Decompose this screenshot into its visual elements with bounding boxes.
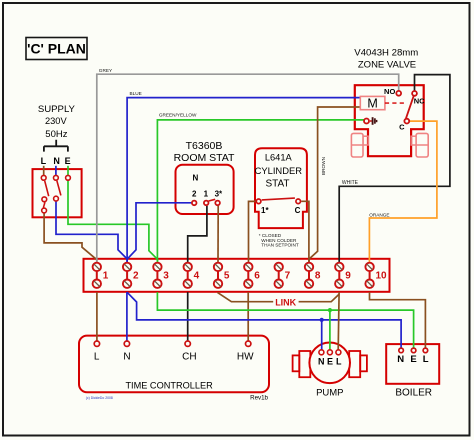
wire green terminal 3 to pump and boiler E bbox=[157, 292, 413, 350]
wire grey terminal 1 to valve NO bbox=[97, 68, 399, 264]
wire brown cylinder stat 1 to terminal 6 bbox=[249, 201, 256, 263]
wire white valve NC to terminal 9 bbox=[339, 75, 450, 264]
wire orange valve C to terminal 10 bbox=[369, 121, 437, 263]
cylinder stat box L641A bbox=[255, 148, 307, 228]
zone valve terminal NO bbox=[384, 87, 401, 96]
strip terminal 5 bbox=[214, 263, 230, 288]
label SUPPLY 230V 50Hz bbox=[38, 104, 76, 140]
room stat pin labels N 2 1 3* bbox=[192, 174, 223, 199]
room stat terminal 2 bbox=[192, 201, 197, 206]
svg-text:NO: NO bbox=[384, 87, 395, 96]
wire black terminal 4 to controller CH bbox=[187, 292, 189, 341]
wire brown supply L to terminal 1 bbox=[44, 213, 97, 263]
terminal strip TS1 bbox=[84, 259, 390, 292]
cylinder stat footnote bbox=[259, 233, 299, 247]
boiler terminal N bbox=[397, 348, 404, 365]
zone valve mechanical link dashed bbox=[385, 102, 406, 104]
strip terminal 9 bbox=[335, 263, 351, 288]
svg-text:N: N bbox=[53, 156, 60, 166]
svg-text:ZONE VALVE: ZONE VALVE bbox=[358, 59, 416, 70]
strip terminal 3 bbox=[153, 263, 169, 288]
svg-text:N: N bbox=[123, 352, 130, 363]
time controller terminal N bbox=[123, 341, 130, 363]
svg-text:GREEN/YELLOW: GREEN/YELLOW bbox=[159, 112, 197, 117]
pump terminal E bbox=[327, 350, 333, 367]
svg-text:'C' PLAN: 'C' PLAN bbox=[27, 41, 86, 57]
room stat box T6360B bbox=[174, 140, 235, 214]
zone valve terminal NC bbox=[412, 91, 425, 106]
svg-text:ROOM STAT: ROOM STAT bbox=[174, 152, 235, 164]
boiler box bbox=[386, 344, 439, 398]
zone valve left union bbox=[351, 133, 368, 157]
svg-text:10: 10 bbox=[376, 271, 388, 282]
supply bracket symbol bbox=[44, 140, 68, 152]
svg-text:THAN SETPOINT: THAN SETPOINT bbox=[261, 242, 299, 247]
svg-text:4: 4 bbox=[194, 271, 200, 282]
svg-text:2: 2 bbox=[133, 271, 139, 282]
svg-text:PUMP: PUMP bbox=[316, 387, 343, 398]
title 'C' PLAN bbox=[26, 38, 87, 60]
svg-text:HW: HW bbox=[237, 352, 254, 363]
wire blue supply N to terminal 2 bbox=[56, 202, 127, 264]
wire brown terminal 6 to controller HW bbox=[247, 292, 249, 341]
svg-text:BOILER: BOILER bbox=[395, 387, 432, 398]
wire brown room stat 3 to terminal 5 bbox=[217, 206, 219, 264]
svg-text:V4043H 28mm: V4043H 28mm bbox=[354, 48, 418, 59]
svg-text:1: 1 bbox=[103, 271, 109, 282]
svg-text:CYLINDER: CYLINDER bbox=[255, 165, 303, 176]
wire brown link terminal 5 to terminal 9 bbox=[218, 292, 339, 307]
svg-text:6: 6 bbox=[254, 271, 260, 282]
wire brown terminal 1 to controller L bbox=[96, 292, 98, 341]
wire brown cylinder stat C to terminal 8 bbox=[301, 201, 309, 263]
svg-text:BROWN: BROWN bbox=[321, 157, 326, 175]
svg-text:L: L bbox=[94, 352, 100, 363]
strip terminal 4 bbox=[184, 263, 200, 288]
svg-text:M: M bbox=[367, 96, 377, 110]
cylinder stat pin labels 1* C bbox=[261, 206, 301, 215]
pump body bbox=[293, 343, 367, 399]
svg-text:2: 2 bbox=[192, 190, 197, 199]
supply switch blade L bbox=[45, 181, 49, 196]
svg-text:E: E bbox=[327, 356, 333, 366]
svg-text:5: 5 bbox=[224, 271, 230, 282]
time controller box bbox=[79, 336, 269, 393]
svg-text:3*: 3* bbox=[215, 190, 223, 199]
room stat switch blade bbox=[209, 199, 216, 201]
supply terminal L top bbox=[41, 175, 46, 180]
zone valve body bbox=[355, 85, 424, 156]
svg-text:TIME CONTROLLER: TIME CONTROLLER bbox=[125, 380, 213, 390]
time controller terminal HW bbox=[237, 341, 254, 363]
svg-text:Rev1b: Rev1b bbox=[250, 394, 268, 401]
supply terminal N top bbox=[54, 175, 59, 180]
svg-text:E: E bbox=[410, 354, 416, 365]
zone valve labels bbox=[354, 48, 418, 71]
wire brown valve motor to terminal 8 bbox=[309, 107, 360, 263]
svg-text:50Hz: 50Hz bbox=[45, 129, 67, 140]
svg-text:3: 3 bbox=[163, 271, 169, 282]
svg-text:GREY: GREY bbox=[99, 68, 113, 73]
svg-text:1*: 1* bbox=[261, 206, 269, 215]
strip terminal 7 bbox=[275, 263, 291, 288]
svg-text:WHITE: WHITE bbox=[342, 180, 359, 186]
svg-text:C: C bbox=[399, 123, 405, 132]
wire green-yellow terminal 3 to valve earth bbox=[157, 112, 363, 263]
wire stub supply E green bbox=[67, 166, 69, 175]
svg-text:T6360B: T6360B bbox=[186, 140, 223, 152]
pump terminal L bbox=[336, 350, 342, 367]
zone valve terminal C bbox=[399, 119, 409, 132]
svg-text:N: N bbox=[318, 356, 325, 366]
pump terminal N bbox=[318, 350, 325, 367]
svg-text:C: C bbox=[295, 206, 301, 215]
svg-text:L641A: L641A bbox=[265, 152, 293, 162]
wire black room stat 1 to terminal 4 bbox=[188, 206, 207, 264]
svg-text:(c) DickieDo 2008: (c) DickieDo 2008 bbox=[86, 396, 113, 400]
strip terminal 6 bbox=[244, 263, 260, 288]
svg-text:NC: NC bbox=[414, 97, 425, 106]
svg-text:LINK: LINK bbox=[275, 297, 296, 307]
svg-text:ORANGE: ORANGE bbox=[369, 212, 389, 217]
svg-text:N: N bbox=[397, 354, 404, 365]
svg-text:230V: 230V bbox=[45, 116, 68, 126]
wire stub supply L brown bbox=[43, 166, 45, 175]
svg-text:L: L bbox=[336, 356, 342, 366]
strip terminal 10 bbox=[365, 263, 387, 288]
supply terminal N mid bbox=[54, 196, 59, 201]
svg-text:7: 7 bbox=[285, 271, 291, 282]
wire blue terminal 2 to controller N bbox=[126, 292, 128, 341]
wire blue room stat N to terminal 2 bbox=[127, 203, 191, 259]
svg-text:1: 1 bbox=[204, 190, 209, 199]
zone valve earth terminal bbox=[364, 117, 377, 125]
boiler terminal E bbox=[410, 348, 416, 365]
cylinder stat switch blade bbox=[262, 198, 295, 200]
supply isolator box bbox=[33, 169, 82, 217]
zone valve motor M bbox=[360, 96, 385, 110]
wire brown terminal 10 to boiler L bbox=[370, 292, 426, 348]
svg-text:SUPPLY: SUPPLY bbox=[38, 104, 76, 115]
wire green supply E to terminal 3 bbox=[68, 181, 157, 264]
time controller terminal CH bbox=[182, 341, 196, 363]
boiler terminal L bbox=[423, 348, 429, 365]
cylinder stat terminal 1 bbox=[256, 199, 261, 204]
supply fuse blade L bbox=[43, 202, 45, 207]
svg-text:8: 8 bbox=[315, 271, 321, 282]
supply pin labels L N E bbox=[41, 156, 71, 166]
svg-text:L: L bbox=[41, 156, 47, 166]
time controller terminal L bbox=[94, 341, 100, 363]
time controller footer labels bbox=[86, 394, 269, 401]
supply terminal L bottom bbox=[42, 208, 47, 213]
wire brown terminal 9 to pump L bbox=[337, 292, 340, 350]
zone valve switch arm C-NC bbox=[406, 96, 414, 118]
wire blue terminal 2 to valve motor bbox=[127, 91, 360, 263]
svg-text:* CLOSED: * CLOSED bbox=[259, 233, 282, 238]
wire stub supply N blue bbox=[55, 166, 57, 175]
supply terminal L mid bbox=[42, 197, 47, 202]
zone valve right union bbox=[411, 133, 428, 157]
strip terminal 2 bbox=[123, 263, 139, 288]
svg-text:N: N bbox=[193, 174, 199, 183]
cylinder stat terminal C bbox=[296, 199, 301, 204]
supply switch blade N bbox=[57, 181, 61, 196]
room stat terminal 1 bbox=[204, 201, 209, 206]
supply terminal E top bbox=[66, 175, 71, 180]
svg-text:BLUE: BLUE bbox=[130, 91, 142, 96]
svg-text:STAT: STAT bbox=[265, 178, 289, 189]
svg-text:E: E bbox=[65, 156, 71, 166]
wire blue terminal 2 to pump and boiler N bbox=[127, 292, 401, 350]
strip terminal 8 bbox=[305, 263, 321, 288]
svg-text:9: 9 bbox=[345, 271, 351, 282]
svg-text:L: L bbox=[423, 354, 429, 365]
room stat terminal 3 bbox=[215, 201, 220, 206]
svg-text:CH: CH bbox=[182, 352, 196, 363]
strip terminal 1 bbox=[93, 263, 109, 288]
